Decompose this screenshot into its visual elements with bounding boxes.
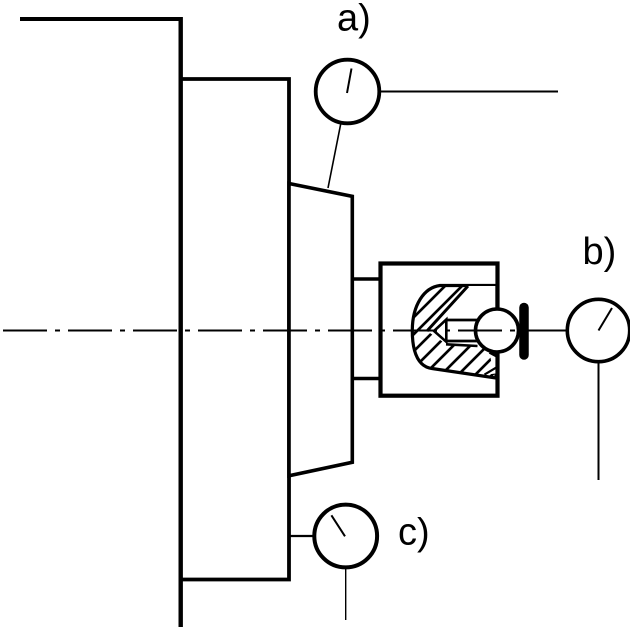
dial c connector — [288, 535, 313, 537]
holder box — [381, 264, 498, 396]
dial indicator c — [314, 505, 377, 568]
conical hole (white relief) — [427, 286, 495, 346]
dial a stem line — [381, 91, 558, 93]
dial b needle — [599, 308, 613, 331]
taper (cone frustum) — [289, 184, 352, 476]
dial a needle — [347, 69, 352, 94]
corner chamfer line — [485, 368, 497, 375]
svg-text:a): a) — [337, 0, 371, 40]
ball — [476, 309, 519, 352]
ball to box edge junction — [490, 353, 498, 357]
chuck body — [181, 79, 289, 580]
hole lower boundary — [446, 344, 478, 346]
svg-text:c): c) — [398, 512, 430, 554]
dial indicator a — [316, 60, 380, 124]
mandrel neck — [352, 279, 382, 379]
pin cylinder — [446, 319, 480, 343]
socket cup (hatched cross-section) — [412, 286, 496, 379]
dial c stem — [345, 569, 347, 620]
dial indicator b — [567, 299, 629, 361]
dial a leader — [328, 123, 341, 189]
centerline (dash-dot axis) — [3, 330, 566, 332]
corner notch right of ball — [486, 353, 495, 375]
headstock top edge — [20, 17, 181, 21]
pin cone tip — [434, 320, 446, 342]
headstock front face — [178, 17, 182, 627]
flange disc — [519, 308, 529, 356]
hole upper boundary — [427, 286, 468, 331]
dial b stem — [598, 362, 600, 480]
dial c needle — [331, 515, 345, 536]
svg-text:b): b) — [583, 231, 617, 273]
